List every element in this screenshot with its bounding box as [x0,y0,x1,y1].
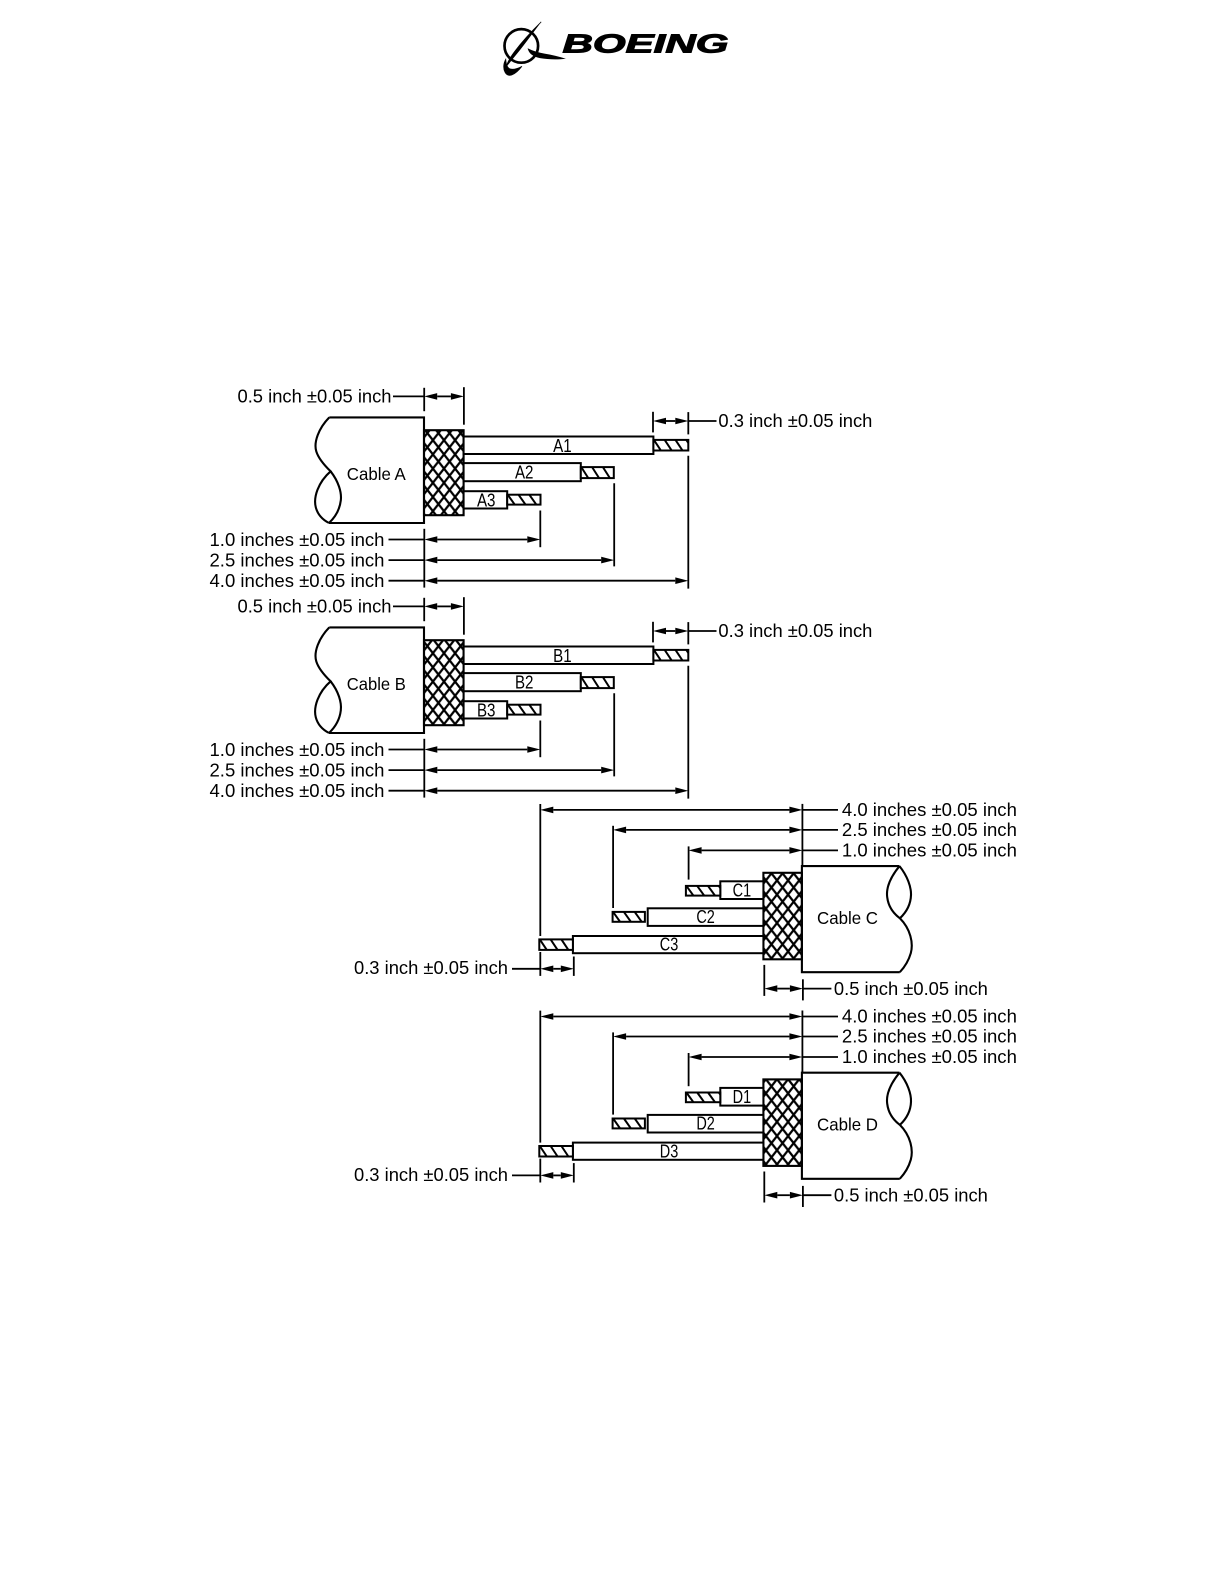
svg-text:0.5 inch ±0.05 inch: 0.5 inch ±0.05 inch [834,979,988,999]
dimension 0.5 inch (braid length, cable A) [423,388,425,411]
dimension 0.3 inch (stripped tip, wire C3) [539,952,541,976]
wire C1 stripped tip [686,886,720,896]
dimension 0.5 inch (braid length, cable C) [763,965,765,996]
wire D3 stripped tip [539,1146,573,1157]
svg-text:0.3 inch ±0.05 inch: 0.3 inch ±0.05 inch [718,621,872,641]
wire D2 insulation [648,1115,764,1133]
svg-text:A3: A3 [477,490,496,510]
wire C3 insulation [573,936,764,953]
svg-text:D2: D2 [696,1114,715,1134]
cable A break line [315,417,330,523]
svg-text:0.5 inch ±0.05 inch: 0.5 inch ±0.05 inch [238,597,392,617]
svg-text:1.0 inches ±0.05 inch: 1.0 inches ±0.05 inch [842,841,1017,861]
wire D3 insulation [573,1143,764,1160]
cable B break line [315,627,330,733]
wire D2 stripped tip [613,1119,645,1129]
svg-text:B3: B3 [477,700,496,720]
svg-text:4.0 inches ±0.05 inch: 4.0 inches ±0.05 inch [842,1007,1017,1027]
wire A3 stripped tip [507,495,540,505]
wire C2 insulation [648,908,764,926]
wire C2 stripped tip [613,912,645,922]
svg-text:C1: C1 [733,880,752,900]
svg-text:D3: D3 [660,1141,679,1161]
svg-text:D1: D1 [733,1087,752,1107]
dimensions 1.0 / 2.5 / 4.0 inches (cable B) [423,739,425,798]
wire C3 stripped tip [539,939,573,950]
svg-text:C3: C3 [660,935,679,955]
dimension 0.5 inch (braid length, cable D) [763,1172,765,1203]
svg-text:2.5 inches ±0.05 inch: 2.5 inches ±0.05 inch [842,820,1017,840]
cable A body outline [329,417,424,523]
wire D1 insulation [720,1088,763,1106]
dimensions 4.0 / 2.5 / 1.0 inches (cable D) [801,1011,803,1073]
cable B shield braid (crosshatch) [424,640,464,725]
wire A1 stripped tip [653,440,688,451]
svg-text:4.0 inches ±0.05 inch: 4.0 inches ±0.05 inch [210,781,385,801]
svg-text:4.0 inches ±0.05 inch: 4.0 inches ±0.05 inch [210,571,385,591]
wire D1 stripped tip [686,1093,720,1103]
dimension 0.5 inch (braid length, cable B) [423,598,425,621]
svg-text:Cable A: Cable A [347,464,406,484]
svg-text:0.3 inch ±0.05 inch: 0.3 inch ±0.05 inch [718,411,872,431]
wire B1 stripped tip [653,650,688,661]
svg-text:1.0 inches ±0.05 inch: 1.0 inches ±0.05 inch [210,740,385,760]
dimensions 1.0 / 2.5 / 4.0 inches (cable A) [423,529,425,588]
svg-text:2.5 inches ±0.05 inch: 2.5 inches ±0.05 inch [842,1027,1017,1047]
dimensions 4.0 / 2.5 / 1.0 inches (cable C) [801,804,803,866]
svg-text:4.0 inches ±0.05 inch: 4.0 inches ±0.05 inch [842,800,1017,820]
cable C break line [887,866,912,972]
svg-text:0.5 inch ±0.05 inch: 0.5 inch ±0.05 inch [834,1185,988,1205]
cable D break line [887,1073,912,1179]
svg-text:0.3 inch ±0.05 inch: 0.3 inch ±0.05 inch [354,1165,508,1185]
svg-text:B2: B2 [515,672,534,692]
wire B2 insulation [464,673,581,691]
cable C shield braid (crosshatch) [763,873,802,960]
svg-text:A1: A1 [553,436,572,456]
dimension 0.3 inch (stripped tip, wire D3) [539,1159,541,1183]
wire A2 stripped tip [581,467,614,478]
Boeing logo [504,22,729,76]
svg-text:C2: C2 [696,907,715,927]
dimension 0.3 inch (stripped tip, wire A1) [652,412,654,433]
svg-text:Cable D: Cable D [817,1115,878,1135]
wire B3 stripped tip [507,705,540,715]
svg-text:B1: B1 [553,646,572,666]
dimension 0.3 inch (stripped tip, wire B1) [652,622,654,643]
svg-text:2.5 inches ±0.05 inch: 2.5 inches ±0.05 inch [210,761,385,781]
wire B2 stripped tip [581,677,614,688]
svg-text:2.5 inches ±0.05 inch: 2.5 inches ±0.05 inch [210,551,385,571]
cable C body outline [802,866,900,972]
svg-text:0.3 inch ±0.05 inch: 0.3 inch ±0.05 inch [354,958,508,978]
wire C1 insulation [720,881,763,899]
cable B body outline [329,627,424,733]
logo symbol (circle + swoosh) [505,29,539,63]
svg-text:A2: A2 [515,462,534,482]
wire A1 insulation [464,437,654,455]
cable D shield braid (crosshatch) [763,1079,802,1166]
svg-text:Cable B: Cable B [347,674,406,694]
wire A2 insulation [464,463,581,481]
svg-text:BOEING: BOEING [563,28,729,58]
cable D body outline [802,1073,900,1179]
svg-text:1.0 inches ±0.05 inch: 1.0 inches ±0.05 inch [210,530,385,550]
svg-text:0.5 inch ±0.05 inch: 0.5 inch ±0.05 inch [238,387,392,407]
wire B1 insulation [464,647,654,665]
svg-text:1.0 inches ±0.05 inch: 1.0 inches ±0.05 inch [842,1047,1017,1067]
wire B3 insulation [464,701,508,718]
svg-text:Cable C: Cable C [817,908,878,928]
wire A3 insulation [464,491,508,508]
cable A shield braid (crosshatch) [424,430,464,515]
